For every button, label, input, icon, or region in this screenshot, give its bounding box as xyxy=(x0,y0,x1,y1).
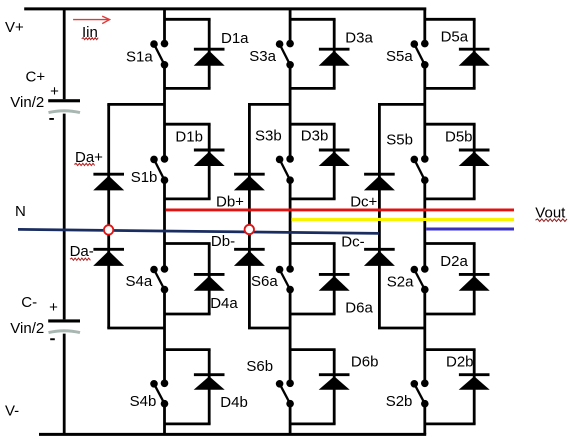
squiggle under Iin xyxy=(82,38,99,40)
Iin current arrow xyxy=(73,16,110,24)
svg-text:S3b: S3b xyxy=(255,127,282,144)
wire left DC-link branch upper xyxy=(63,8,66,100)
squiggle under Vout xyxy=(536,219,568,222)
label D3b xyxy=(301,127,329,144)
label D1b xyxy=(175,129,203,146)
diode Da+ xyxy=(93,174,124,190)
label D5a xyxy=(441,28,469,45)
svg-text:C+: C+ xyxy=(26,68,46,85)
svg-text:D1b: D1b xyxy=(175,129,203,146)
diode D2a xyxy=(459,274,490,290)
switch S3b xyxy=(276,155,294,184)
node phase-b clamp midpoint xyxy=(245,225,254,234)
svg-text:D1a: D1a xyxy=(221,30,249,47)
wire D2a branch xyxy=(425,244,476,315)
diode Dc+ xyxy=(364,174,395,190)
svg-text:Vin/2: Vin/2 xyxy=(10,320,44,337)
wire D4a branch xyxy=(165,244,211,315)
switch S4b xyxy=(150,380,168,408)
svg-text:S2a: S2a xyxy=(387,274,414,291)
label D6b xyxy=(351,354,379,371)
svg-text:S1a: S1a xyxy=(126,49,153,66)
diode Dc- xyxy=(364,249,395,266)
label V+ xyxy=(5,19,24,36)
svg-text:D2a: D2a xyxy=(440,253,468,270)
svg-text:S6b: S6b xyxy=(246,358,273,375)
diode D1b xyxy=(194,150,225,166)
wire red output (phase a) xyxy=(166,208,514,211)
wire D1b branch xyxy=(165,124,211,199)
label S3a xyxy=(249,48,276,65)
label Da+ xyxy=(75,149,103,166)
label S2b xyxy=(386,393,413,410)
diode D6a xyxy=(319,274,350,290)
label S6b xyxy=(246,358,273,375)
diode Da- xyxy=(93,249,124,266)
switch S1a xyxy=(150,40,168,69)
wire D1a branch xyxy=(165,19,211,88)
wire D6a branch xyxy=(290,244,336,315)
svg-text:Db-: Db- xyxy=(211,233,235,250)
label D5b xyxy=(445,129,473,146)
label Vin/2 xyxy=(10,94,44,111)
svg-text:D4b: D4b xyxy=(220,394,248,411)
wire D4b branch xyxy=(165,350,211,424)
svg-text:S4b: S4b xyxy=(130,393,157,410)
diode D3b xyxy=(319,150,350,166)
wire D3b branch xyxy=(290,124,336,199)
svg-text:D5b: D5b xyxy=(445,129,473,146)
label - xyxy=(49,110,54,127)
svg-text:V-: V- xyxy=(5,402,19,419)
switch S4a xyxy=(150,265,168,293)
label + xyxy=(49,299,58,316)
svg-text:S6a: S6a xyxy=(251,273,278,290)
diode D4b xyxy=(194,375,225,390)
diode D2b xyxy=(459,375,490,390)
squiggle under Da+ xyxy=(74,163,94,165)
label + xyxy=(50,83,59,100)
label Dc- xyxy=(341,233,364,250)
switch S2b xyxy=(411,380,429,408)
diode D1a xyxy=(194,49,225,65)
svg-text:Db+: Db+ xyxy=(216,194,244,211)
svg-text:S5b: S5b xyxy=(386,131,413,148)
label D2a xyxy=(440,253,468,270)
svg-text:V+: V+ xyxy=(5,19,24,36)
switch S5a xyxy=(411,40,429,69)
svg-text:D6b: D6b xyxy=(351,354,379,371)
switch S2a xyxy=(411,265,429,293)
label D6a xyxy=(345,300,373,317)
switch S3a xyxy=(276,40,294,69)
label Vout xyxy=(535,204,566,221)
label S6a xyxy=(251,273,278,290)
label D4b xyxy=(220,394,248,411)
wire left DC-link branch lower xyxy=(63,334,66,435)
svg-text:S1b: S1b xyxy=(131,169,158,186)
wire D5b branch xyxy=(425,124,476,199)
label S1a xyxy=(126,49,153,66)
wire clamp chain a xyxy=(107,104,164,328)
label D3a xyxy=(345,30,373,47)
label C+ xyxy=(26,68,46,85)
switch S6b xyxy=(276,380,294,408)
diode Db- xyxy=(234,249,265,266)
svg-text:D3b: D3b xyxy=(301,127,329,144)
svg-text:D3a: D3a xyxy=(345,30,373,47)
wire D2b branch xyxy=(425,350,476,424)
label N xyxy=(15,203,26,220)
diode D5b xyxy=(459,150,490,166)
switch S5b xyxy=(411,155,429,184)
svg-text:-: - xyxy=(49,110,54,127)
svg-text:S4a: S4a xyxy=(126,273,153,290)
label C- xyxy=(21,294,37,311)
svg-text:D4a: D4a xyxy=(210,295,238,312)
wire clamp chain c xyxy=(378,104,425,328)
wire phase-c leg vertical xyxy=(423,8,426,435)
svg-text:Da-: Da- xyxy=(70,243,94,260)
svg-text:Dc-: Dc- xyxy=(341,233,364,250)
label D2b xyxy=(446,354,474,371)
label S4b xyxy=(130,393,157,410)
wire phase-b leg vertical xyxy=(289,8,292,435)
diode Db+ xyxy=(234,174,265,190)
wire V- bottom rail xyxy=(39,433,426,436)
wire phase-a leg vertical xyxy=(163,8,166,435)
label Db- xyxy=(211,233,235,250)
wire blue output (phase c) xyxy=(426,228,514,231)
label Dc+ xyxy=(350,194,377,211)
label Db+ xyxy=(216,194,244,211)
wire D3a branch xyxy=(290,19,336,88)
label Iin xyxy=(82,24,98,41)
switch S1b xyxy=(150,155,168,184)
squiggle under Da- xyxy=(70,258,90,260)
svg-text:S2b: S2b xyxy=(386,393,413,410)
capacitor C+ xyxy=(48,99,80,120)
wire D6b branch xyxy=(290,350,336,424)
svg-text:N: N xyxy=(15,203,26,220)
svg-text:D6a: D6a xyxy=(345,300,373,317)
capacitor C- xyxy=(48,319,80,340)
label Da- xyxy=(70,243,94,260)
label D1a xyxy=(221,30,249,47)
svg-text:D2b: D2b xyxy=(446,354,474,371)
svg-text:Vin/2: Vin/2 xyxy=(10,94,44,111)
label S5a xyxy=(386,48,413,65)
svg-text:S3a: S3a xyxy=(249,48,276,65)
svg-text:+: + xyxy=(49,299,58,316)
svg-text:Dc+: Dc+ xyxy=(350,194,377,211)
diode D4a xyxy=(194,274,225,290)
label Vin/2 xyxy=(10,320,44,337)
label S5b xyxy=(386,131,413,148)
svg-text:C-: C- xyxy=(21,294,37,311)
label S3b xyxy=(255,127,282,144)
wire yellow output (phase b) xyxy=(291,218,514,221)
diode D3a xyxy=(319,49,350,65)
diode D5a xyxy=(459,49,490,65)
label S1b xyxy=(131,169,158,186)
wire navy neutral N xyxy=(18,229,379,233)
switch S6a xyxy=(276,265,294,293)
svg-text:+: + xyxy=(50,83,59,100)
wire D5a branch xyxy=(425,19,476,88)
label S4a xyxy=(126,273,153,290)
wire left DC-link branch middle xyxy=(63,114,66,320)
label D4a xyxy=(210,295,238,312)
wire V+ top rail xyxy=(24,7,426,10)
svg-text:S5a: S5a xyxy=(386,48,413,65)
svg-text:D5a: D5a xyxy=(441,28,469,45)
wire clamp chain b xyxy=(248,104,290,328)
label S2a xyxy=(387,274,414,291)
node phase-a clamp midpoint xyxy=(104,225,113,234)
label V- xyxy=(5,402,19,419)
diode D6b xyxy=(319,375,350,390)
